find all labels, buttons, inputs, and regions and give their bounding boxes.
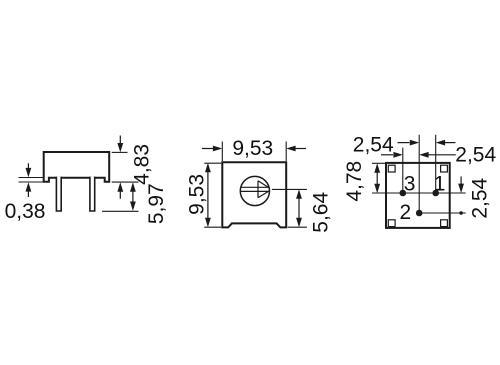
dim arrow right 2,54 row2 — [381, 152, 403, 158]
corner foot top-left — [388, 165, 395, 172]
dim arrow down 4,83 — [117, 136, 123, 153]
dim arrow down 0,38 — [26, 163, 32, 177]
extension line body top right — [112, 151, 128, 153]
dim arrow down 2,54 right — [458, 177, 464, 194]
extension line body top-left (4,78) — [372, 162, 385, 164]
svg-text:1: 1 — [434, 172, 446, 195]
extension line standoff bottom left — [19, 181, 49, 183]
dim dot 2,54 right — [459, 211, 463, 215]
bottom view body — [386, 163, 450, 228]
rotor slot line bottom — [241, 190, 270, 192]
extension line body bottom right (5,64) — [288, 226, 307, 228]
dim arrow up 4,83 — [117, 182, 123, 199]
rotor arrow triangle — [258, 181, 269, 198]
top view body — [222, 162, 286, 227]
svg-text:9,53: 9,53 — [185, 174, 208, 215]
extension line body bottom right — [112, 181, 139, 183]
corner foot bottom-left — [388, 220, 395, 227]
pin right (side view) — [90, 177, 95, 211]
corner foot bottom-right — [441, 220, 448, 227]
svg-text:2,54: 2,54 — [468, 177, 491, 218]
dim double arrow 5,64 — [296, 189, 302, 227]
pin left (side view) — [56, 177, 61, 211]
dim arrow right 9,53 top — [202, 146, 222, 152]
extension line standoff top left — [19, 177, 44, 179]
dim arrow right 2,54 row1 — [398, 140, 420, 146]
dim arrow left 9,53 top — [286, 146, 306, 152]
pin row line 3-1 — [372, 192, 466, 194]
rotor slot line top — [241, 186, 270, 188]
dim arrow up 0,38 — [26, 182, 32, 197]
svg-text:0,38: 0,38 — [5, 200, 46, 223]
pin 1 lead line — [435, 135, 437, 193]
extension line left-bottom (9,53 height) — [204, 226, 221, 228]
svg-text:2: 2 — [400, 201, 412, 224]
corner foot top-right — [441, 165, 448, 172]
pin row line 2 — [419, 212, 466, 214]
svg-text:5,64: 5,64 — [309, 192, 332, 233]
pin 2 dot — [416, 210, 423, 217]
svg-text:4,78: 4,78 — [343, 161, 366, 202]
pin 3 dot — [400, 190, 407, 197]
pin 1 dot — [432, 190, 439, 197]
dim arrow left 2,54 row1 — [436, 140, 456, 146]
svg-text:5,97: 5,97 — [145, 183, 168, 224]
extension line rotor center right — [272, 188, 307, 190]
svg-text:2,54: 2,54 — [455, 144, 496, 167]
extension line top-right (9,53 width) — [285, 142, 287, 162]
extension line left-top (9,53 height) — [204, 162, 221, 164]
dim double arrow 4,78 — [374, 163, 380, 193]
svg-text:4,83: 4,83 — [131, 144, 154, 185]
extension line pin bottom — [102, 210, 139, 212]
pin 2 lead line — [418, 135, 420, 213]
svg-text:9,53: 9,53 — [232, 137, 273, 160]
rotor circle — [240, 176, 269, 205]
dim arrow left 2,54 row2 — [419, 152, 456, 158]
dim double arrow 9,53 left — [205, 163, 211, 227]
svg-text:2,54: 2,54 — [353, 134, 394, 157]
extension line top-left (9,53 width) — [221, 142, 223, 162]
side view body — [44, 152, 110, 182]
pin 3 lead line — [402, 148, 404, 193]
dim double arrow 5,97 — [130, 182, 136, 211]
svg-text:3: 3 — [404, 172, 416, 195]
